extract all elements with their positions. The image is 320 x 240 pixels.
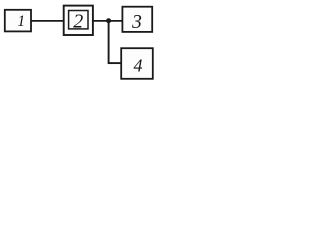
svg-text:3: 3 bbox=[131, 12, 142, 33]
wire block2 to block3 bbox=[93, 20, 123, 22]
block 3 bbox=[122, 7, 152, 33]
svg-text:4: 4 bbox=[134, 56, 143, 76]
svg-text:2: 2 bbox=[73, 10, 83, 32]
wire to block 4 bbox=[108, 62, 121, 64]
block 1 bbox=[5, 10, 31, 32]
svg-text:1: 1 bbox=[17, 13, 25, 30]
wire junction down bbox=[108, 21, 110, 63]
block 2 (double border) bbox=[64, 6, 93, 35]
wire block1 to block2 bbox=[31, 20, 64, 22]
block 4 bbox=[121, 48, 153, 79]
junction dot bbox=[106, 18, 111, 23]
